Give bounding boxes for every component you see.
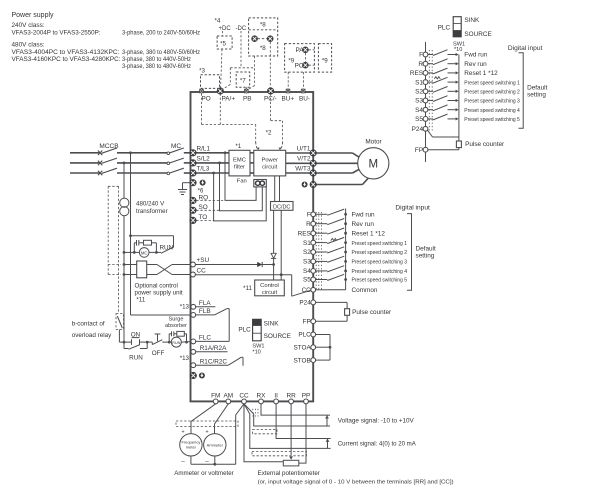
svg-text:Power: Power	[261, 158, 278, 164]
svg-text:Power supply: Power supply	[12, 12, 55, 19]
svg-text:S5: S5	[415, 116, 423, 123]
svg-text:Preset speed switching 4: Preset speed switching 4	[464, 108, 520, 114]
svg-text:*11: *11	[243, 285, 252, 292]
svg-text:Digital input: Digital input	[508, 45, 543, 52]
svg-text:Motor: Motor	[365, 139, 382, 146]
svg-text:SINK: SINK	[264, 320, 280, 327]
svg-text:Preset speed switching 1: Preset speed switching 1	[464, 80, 520, 86]
svg-text:480V class:: 480V class:	[12, 42, 45, 49]
svg-text:F: F	[307, 212, 311, 219]
svg-text:EMC: EMC	[233, 158, 246, 164]
svg-text:RX: RX	[257, 392, 267, 399]
svg-text:CC: CC	[197, 267, 207, 274]
svg-text:Preset speed switching 4: Preset speed switching 4	[352, 269, 408, 275]
svg-text:R: R	[418, 61, 423, 68]
svg-text:Preset speed switching 3: Preset speed switching 3	[352, 260, 408, 266]
svg-text:*5: *5	[220, 40, 226, 47]
svg-text:VFAS3-4160KPC to VFAS3-4280KPC: VFAS3-4160KPC to VFAS3-4280KPC:	[12, 56, 121, 63]
svg-text:480/240 V: 480/240 V	[136, 200, 165, 207]
svg-text:OFF: OFF	[152, 350, 165, 357]
svg-text:F: F	[419, 52, 423, 59]
svg-text:Control: Control	[260, 283, 279, 289]
svg-text:PB: PB	[243, 96, 252, 103]
svg-text:meter: meter	[186, 444, 197, 449]
svg-text:Reset 1 *12: Reset 1 *12	[464, 70, 498, 77]
svg-text:VFAS3-2004P to VFAS3-2550P:: VFAS3-2004P to VFAS3-2550P:	[12, 30, 101, 37]
svg-text:S/L2: S/L2	[197, 156, 211, 163]
svg-text:DC/DC: DC/DC	[273, 204, 290, 210]
svg-text:RUN: RUN	[172, 341, 180, 345]
svg-text:Rev run: Rev run	[352, 221, 375, 228]
svg-text:BU-: BU-	[299, 96, 310, 103]
svg-text:FM: FM	[211, 392, 220, 399]
svg-text:Ammeter or voltmeter: Ammeter or voltmeter	[174, 470, 233, 477]
svg-text:P24: P24	[299, 300, 311, 307]
svg-text:SOURCE: SOURCE	[264, 333, 291, 340]
svg-text:S2: S2	[415, 89, 423, 96]
svg-text:Preset speed switching 2: Preset speed switching 2	[464, 90, 520, 96]
svg-text:S1: S1	[415, 79, 423, 86]
svg-text:CC: CC	[239, 392, 249, 399]
svg-text:S3: S3	[303, 259, 311, 266]
svg-text:3-phase, 200 to 240V-50/60Hz: 3-phase, 200 to 240V-50/60Hz	[122, 30, 200, 37]
svg-text:RES: RES	[410, 70, 423, 77]
svg-text:PP: PP	[302, 392, 311, 399]
svg-text:setting: setting	[527, 92, 546, 99]
svg-text:circuit: circuit	[262, 290, 278, 296]
svg-text:PLC: PLC	[238, 327, 251, 334]
svg-text:FP: FP	[303, 318, 311, 325]
svg-text:*10: *10	[252, 349, 260, 355]
svg-text:*3: *3	[199, 68, 205, 75]
svg-text:FLA: FLA	[199, 300, 211, 307]
svg-text:S5: S5	[303, 277, 311, 284]
svg-text:RR: RR	[286, 392, 296, 399]
svg-text:FP: FP	[415, 147, 423, 154]
svg-text:MCCB: MCCB	[99, 143, 118, 150]
svg-text:FLC: FLC	[199, 334, 211, 341]
svg-text:STOB: STOB	[294, 357, 311, 364]
svg-text:3-phase, 380 to 480V-60Hz: 3-phase, 380 to 480V-60Hz	[122, 63, 191, 70]
svg-text:RES: RES	[298, 230, 311, 237]
svg-text:Optional control: Optional control	[135, 282, 178, 289]
svg-text:MC: MC	[171, 143, 181, 150]
svg-text:_: _	[180, 456, 185, 462]
svg-text:CC: CC	[302, 287, 312, 294]
svg-text:Current signal: 4(0) to 20 mA: Current signal: 4(0) to 20 mA	[338, 441, 417, 448]
svg-text:S3: S3	[415, 98, 423, 105]
svg-text:Preset speed switching 1: Preset speed switching 1	[352, 241, 408, 247]
svg-text:T/L3: T/L3	[197, 166, 210, 173]
svg-text:Default: Default	[527, 85, 547, 92]
svg-text:SINK: SINK	[464, 17, 480, 24]
svg-text:*7: *7	[240, 77, 246, 84]
svg-text:RUN: RUN	[129, 355, 143, 362]
svg-text:+: +	[181, 429, 184, 435]
svg-text:V/T2: V/T2	[297, 156, 311, 163]
svg-text:Rev run: Rev run	[464, 61, 487, 68]
svg-text:Surge: Surge	[169, 317, 184, 323]
svg-text:STOA: STOA	[294, 344, 312, 351]
svg-text:S2: S2	[303, 249, 311, 256]
svg-text:transformer: transformer	[136, 208, 168, 215]
svg-text:W/T3: W/T3	[295, 166, 311, 173]
svg-text:Reset 1 *12: Reset 1 *12	[352, 230, 386, 237]
svg-text:Pulse counter: Pulse counter	[465, 141, 505, 148]
svg-text:SOURCE: SOURCE	[464, 31, 491, 38]
svg-text:P24: P24	[412, 126, 424, 133]
svg-text:*9: *9	[322, 57, 328, 64]
svg-text:*8: *8	[260, 45, 266, 52]
svg-text:Fwd run: Fwd run	[352, 212, 376, 219]
svg-text:b-contact of: b-contact of	[72, 320, 105, 327]
svg-text:AM: AM	[224, 392, 234, 399]
svg-text:power supply unit: power supply unit	[135, 289, 183, 296]
svg-text:R/L1: R/L1	[197, 145, 211, 152]
svg-text:*11: *11	[136, 296, 145, 303]
svg-text:M: M	[369, 158, 379, 170]
svg-text:*4: *4	[215, 18, 221, 25]
svg-text:Default: Default	[416, 245, 436, 252]
svg-text:absorber: absorber	[165, 323, 187, 329]
svg-text:*2: *2	[266, 130, 272, 137]
svg-text:External potentiometer: External potentiometer	[258, 470, 320, 477]
svg-text:VFAS3-4004PC to VFAS3-4132KPC:: VFAS3-4004PC to VFAS3-4132KPC:	[12, 49, 120, 56]
svg-text:R1C/R2C: R1C/R2C	[200, 358, 228, 365]
svg-text:PLC: PLC	[298, 332, 311, 339]
svg-text:+SU: +SU	[197, 257, 210, 264]
svg-text:*1: *1	[235, 143, 241, 150]
svg-text:R1A/R2A: R1A/R2A	[200, 345, 227, 352]
svg-text:3-phase, 380 to 480V-50/60Hz: 3-phase, 380 to 480V-50/60Hz	[122, 49, 200, 56]
svg-text:Fan: Fan	[237, 179, 247, 185]
svg-text:filter: filter	[234, 164, 245, 170]
svg-text:+: +	[205, 429, 208, 435]
svg-text:*8: *8	[260, 21, 266, 28]
svg-text:circuit: circuit	[262, 164, 278, 170]
svg-text:RUN: RUN	[160, 244, 174, 251]
svg-text:Preset speed switching 3: Preset speed switching 3	[464, 99, 520, 105]
svg-text:S4: S4	[303, 268, 311, 275]
svg-text:_: _	[204, 456, 209, 462]
svg-text:Preset speed switching 5: Preset speed switching 5	[352, 278, 408, 284]
svg-text:Preset speed switching 2: Preset speed switching 2	[352, 250, 408, 256]
svg-text:overload relay: overload relay	[72, 332, 112, 339]
svg-text:MC: MC	[141, 251, 148, 256]
svg-text:U/T1: U/T1	[297, 146, 311, 153]
svg-text:3-phase, 380 to 440V-50Hz: 3-phase, 380 to 440V-50Hz	[122, 56, 191, 63]
svg-text:(or, input voltage signal of 0: (or, input voltage signal of 0 - 10 V be…	[258, 479, 454, 485]
svg-text:Digital input: Digital input	[395, 204, 430, 211]
svg-text:*10: *10	[454, 47, 462, 53]
svg-text:ON: ON	[131, 332, 141, 339]
svg-text:setting: setting	[416, 252, 435, 259]
svg-text:*13: *13	[180, 355, 190, 362]
svg-text:*13: *13	[180, 304, 190, 311]
svg-text:Common: Common	[352, 287, 378, 294]
svg-text:PA/+: PA/+	[222, 96, 236, 103]
svg-text:PLC: PLC	[438, 24, 451, 31]
svg-text:S4: S4	[415, 107, 423, 114]
svg-text:Ammeter: Ammeter	[207, 442, 224, 447]
svg-text:240V class:: 240V class:	[12, 22, 45, 29]
svg-text:II: II	[274, 392, 278, 399]
svg-text:PO: PO	[202, 96, 211, 103]
svg-text:FLB: FLB	[199, 308, 211, 315]
svg-text:S1: S1	[303, 240, 311, 247]
svg-text:Voltage signal: -10 to +10V: Voltage signal: -10 to +10V	[338, 418, 415, 425]
svg-text:Preset speed switching 5: Preset speed switching 5	[464, 117, 520, 123]
svg-text:Pulse counter: Pulse counter	[352, 309, 392, 316]
svg-text:BU+: BU+	[282, 96, 295, 103]
svg-text:Fwd run: Fwd run	[464, 52, 488, 59]
svg-text:+DC: +DC	[219, 26, 232, 32]
